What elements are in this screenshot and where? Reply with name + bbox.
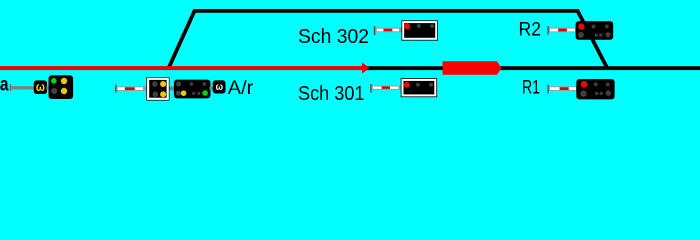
signal Sch 301 mast bar white [373,87,399,89]
signal R2 tiny lamp 1 [595,33,598,36]
signal A/r gray connector 2 [210,87,214,90]
signal R2 mast bar white [550,29,575,32]
signal Sch 301 head box [401,78,437,97]
signal R1 mast tick [547,85,548,94]
signal A/r head 1 yellow lamp BR [160,91,166,97]
svg-text:a: a [0,74,9,96]
signal Sch 301 dark lamp 2 [429,83,433,87]
signal Sch 302 red lamp [404,23,410,29]
signal R1 red lamp [581,81,588,88]
signal A/r head 1 yellow lamp TR [160,81,166,87]
signal R2 dark lamp top right [605,25,609,29]
signal Sch 302 mast bar white [377,29,399,32]
signal a omega box [34,80,47,94]
signal A/r head 2 dark lamp top 3 [203,82,207,86]
signal A/r head 1 dark lamp BL [153,91,159,97]
signal A/r mast bar red segment [125,87,135,90]
signal R1 tiny lamp 1 [595,92,598,95]
signal a dark lamp [51,88,57,94]
signal Sch 301 red lamp [404,82,410,88]
signal Sch 302 dark lamp 1 [417,24,421,28]
siding track: left turnout diagonal, top straight, right turnout diagonal [169,11,608,68]
signal A/r head 2 green lamp [202,90,208,96]
signal Sch 302 mast tick [374,26,376,35]
signal A/r omega box [213,80,226,93]
signal A/r mast bar white [118,87,143,90]
signal A/r mast tick [115,84,117,92]
signal R1 mast bar white [550,87,576,90]
signal Sch 302 dark lamp 2 [430,24,434,28]
svg-text:Sch 302: Sch 302 [298,25,369,48]
signal R1 dark lamp bottom right [606,90,612,96]
signal a mast bar [11,86,35,89]
signal R1 dark lamp top middle [594,82,598,86]
signal a connector [46,86,49,89]
signal R1 tiny lamp 2 [600,92,603,95]
signal a yellow lamp top [61,78,67,84]
signal A/r head 2 dark lamp bottom [176,91,181,96]
signal R2 mast bar frame [549,28,577,33]
occupied track block (red) [443,61,502,74]
signal R2 mast tick [547,26,548,35]
signal A/r head 2 dark lamp top 1 [176,81,181,86]
signal a yellow lamp bottom [61,88,67,94]
signal R2 head box [576,21,614,40]
svg-text:Sch 301: Sch 301 [298,82,365,105]
signal a mast tick [10,84,12,91]
main track black segment [362,66,700,70]
signal R2 mast bar red segment [558,29,567,32]
svg-text:R2: R2 [519,20,542,41]
signal A/r mast bar frame [116,86,146,91]
main track red route segment [0,66,363,70]
route direction arrowhead [362,63,370,74]
signal a green lamp [51,78,57,84]
signal A/r head 2 yellow lamp [181,90,187,96]
signal R1 mast bar frame [549,86,578,91]
signal Sch 302 head box [401,20,438,40]
signal Sch 302 mast bar red segment [383,29,392,32]
signal R2 red lamp [578,23,584,29]
signal Sch 301 mast tick [370,84,372,92]
signal a head box [49,75,74,99]
signal Sch 302 mast bar frame [375,28,401,33]
signal A/r head 2 tiny lamp 2 [197,92,200,95]
signal R2 dark lamp bottom left [578,32,584,38]
signal R1 dark lamp bottom left [580,90,586,96]
signal A/r head 2 box [174,80,211,99]
signal Sch 301 dark lamp 1 [416,83,420,87]
signal A/r gray connector [170,87,175,91]
signal R2 dark lamp bottom right [605,32,610,37]
svg-text:A/r: A/r [228,78,254,99]
signal R1 dark lamp top right [606,82,610,86]
signal A/r head 1 outer [146,77,169,101]
svg-text:R1: R1 [522,77,540,98]
signal Sch 301 mast bar red segment [382,87,390,89]
signal A/r head 2 tiny lamp 1 [192,92,195,95]
svg-text:ω: ω [36,80,46,94]
signal R2 tiny lamp 2 [599,33,602,36]
signal R1 head box [576,79,614,99]
signal R2 dark lamp top middle [592,25,596,29]
signal A/r head 2 dark lamp top 2 [190,82,194,86]
svg-text:ω: ω [216,81,224,93]
signal R1 mast bar red segment [560,87,569,90]
signal Sch 301 mast bar frame [372,86,401,90]
signal A/r head 1 dark lamp TL [152,81,157,86]
